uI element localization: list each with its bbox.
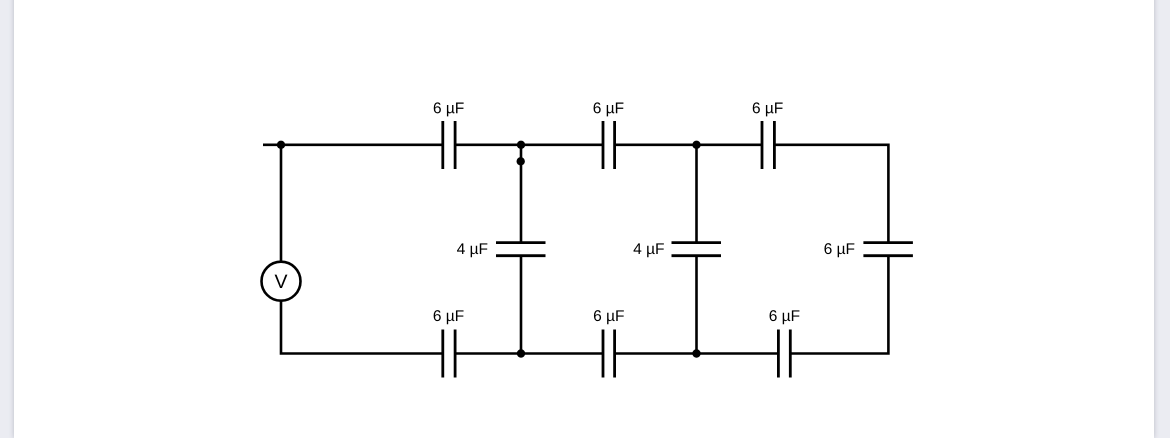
label C3 value 6 µF xyxy=(753,102,783,116)
node left top junction dot xyxy=(277,141,285,149)
wire top segment C3 to right rail corner xyxy=(774,145,888,243)
wire top segment C2 to C3 xyxy=(615,144,762,147)
capacitor C6 6 µF (bottom row, right) xyxy=(778,330,790,378)
voltage source V letter xyxy=(275,275,288,288)
label C5 value 6 µF xyxy=(594,310,624,324)
wire bottom segment C5 to C6 xyxy=(615,352,779,355)
label C2 value 6 µF xyxy=(594,102,624,116)
wire left rail upper (node A to V source) xyxy=(280,145,283,262)
wire middle branch 1 lower (C8 down to bottom wire) xyxy=(520,256,523,354)
node A1 branch endpoint dot xyxy=(517,157,525,165)
label C7 value 6 µF xyxy=(824,243,854,257)
capacitor C9 4 µF (middle branch 2, vertical) xyxy=(672,243,722,256)
wire middle branch 2 upper (node B down to C9) xyxy=(695,145,698,243)
capacitor C1 6 µF (top row, left) xyxy=(443,121,455,169)
wire middle branch 2 lower (C9 down to bottom wire) xyxy=(695,256,698,354)
label C6 value 6 µF xyxy=(770,310,800,324)
label C4 value 6 µF xyxy=(434,310,464,324)
capacitor C5 6 µF (bottom row, middle) xyxy=(603,330,615,378)
wire top segment C1 to C2 xyxy=(455,144,603,147)
label C8 value 4 µF xyxy=(457,243,487,257)
node C junction dot (bottom of branch 1) xyxy=(517,349,525,357)
node B junction dot (top of branch 2) xyxy=(692,141,700,149)
capacitor C3 6 µF (top row, right) xyxy=(762,121,774,169)
wire right rail lower and bottom segment to C6 xyxy=(790,256,888,354)
node A1 junction dot (top of branch 1) xyxy=(517,141,525,149)
voltage source V (circle symbol) xyxy=(262,262,301,301)
wire bottom segment C4 to C5 xyxy=(455,352,603,355)
capacitor C8 4 µF (middle branch 1, vertical) xyxy=(496,243,546,256)
capacitor C2 6 µF (top row, middle) xyxy=(603,121,615,169)
label C1 value 6 µF xyxy=(434,102,464,116)
node D junction dot (bottom of branch 2) xyxy=(692,349,700,357)
label C9 value 4 µF xyxy=(634,243,664,257)
wire middle branch 1 upper (node A1 down to C8) xyxy=(520,145,523,243)
capacitor C4 6 µF (bottom row, left) xyxy=(443,330,455,378)
wire top stub and segment to C1 xyxy=(263,144,443,147)
capacitor C7 6 µF (right rail, vertical) xyxy=(863,243,913,256)
wire left rail lower (V source to bottom wire) and bottom segment to C4 xyxy=(281,301,443,354)
